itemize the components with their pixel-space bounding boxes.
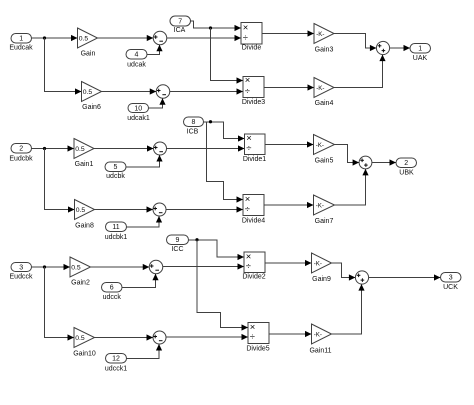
node branch C bbox=[43, 265, 46, 268]
divide Divide3 bbox=[242, 75, 265, 106]
wire Eudcbk to Gain1 bbox=[32, 145, 75, 151]
svg-text:udcbk1: udcbk1 bbox=[105, 234, 128, 241]
wire Sum6 to UCK bbox=[369, 274, 441, 280]
wire Sum3 to Divide1 bbox=[167, 145, 245, 151]
wire Divide1 to Gain5 bbox=[265, 141, 314, 147]
inport 3 Eudcck bbox=[10, 263, 33, 281]
svg-text:2: 2 bbox=[404, 160, 408, 167]
svg-text:11: 11 bbox=[112, 224, 119, 231]
wire Sum3b to Divide4 bbox=[166, 206, 243, 212]
svg-text:3: 3 bbox=[19, 264, 23, 271]
svg-text:Gain: Gain bbox=[81, 51, 96, 58]
svg-text:Eudcak: Eudcak bbox=[9, 45, 33, 52]
wire Gain10 to Sum5b bbox=[95, 334, 154, 340]
inport 4 udcak bbox=[126, 50, 147, 69]
gain Gain8 0.5 bbox=[75, 200, 95, 230]
svg-text:Gain10: Gain10 bbox=[73, 351, 96, 358]
gain Gain1 0.5 bbox=[74, 139, 94, 169]
wire Gain3 to Sum2 bbox=[334, 34, 376, 52]
svg-text:÷: ÷ bbox=[245, 204, 250, 215]
wire Divide2 to Gain9 bbox=[265, 260, 312, 266]
wire Gain8 to Sum3b bbox=[95, 206, 154, 212]
inport 2 Eudcbk bbox=[9, 144, 33, 163]
svg-text:×: × bbox=[245, 75, 251, 86]
inport 5 udcbk bbox=[105, 162, 126, 180]
svg-text:6: 6 bbox=[110, 285, 114, 292]
wire Eudcak to Gain bbox=[32, 35, 78, 41]
wire branch to Gain10 bbox=[45, 267, 75, 341]
inport 11 udcbk1 bbox=[105, 222, 128, 241]
svg-text:Divide3: Divide3 bbox=[242, 99, 265, 106]
sum Sum2 out A bbox=[376, 41, 389, 54]
wire Divide4 to Gain7 bbox=[264, 202, 314, 208]
svg-text:Divide1: Divide1 bbox=[243, 156, 266, 163]
gain Gain9 -K- bbox=[312, 253, 332, 283]
wire Gain5 to Sum4 bbox=[335, 145, 360, 166]
wire Sum4 to UBK bbox=[372, 159, 396, 165]
sum Sum1b bbox=[156, 85, 170, 99]
wire Divide3 to Gain4 bbox=[264, 84, 314, 90]
outport 3 UCK bbox=[441, 273, 462, 292]
svg-text:ICA: ICA bbox=[174, 27, 186, 34]
inport 7 ICA bbox=[170, 16, 191, 34]
svg-text:Gain7: Gain7 bbox=[315, 218, 334, 225]
inport 1 Eudcak bbox=[9, 34, 33, 52]
sum Sum5b bbox=[153, 331, 166, 344]
wire ICA to Divide bbox=[191, 21, 242, 31]
gain Gain7 -K- bbox=[314, 195, 335, 225]
svg-text:Gain5: Gain5 bbox=[315, 158, 334, 165]
wire Gain4 to Sum2 bbox=[334, 55, 386, 88]
svg-text:8: 8 bbox=[192, 119, 196, 126]
svg-text:Divide5: Divide5 bbox=[246, 346, 269, 353]
svg-text:Gain8: Gain8 bbox=[75, 223, 94, 230]
wire Divide to Gain3 bbox=[262, 30, 314, 36]
divide Divide bbox=[241, 22, 262, 51]
divide Divide1 bbox=[243, 133, 266, 163]
wire Eudcck to Gain2 bbox=[32, 264, 71, 270]
gain Gain5 -K- bbox=[314, 135, 335, 165]
svg-text:1: 1 bbox=[19, 36, 23, 43]
svg-text:12: 12 bbox=[112, 356, 120, 363]
svg-text:udcck: udcck bbox=[103, 294, 122, 301]
svg-text:Divide: Divide bbox=[242, 45, 262, 52]
wire Gain9 to Sum6 bbox=[332, 263, 356, 281]
wire udcbk to Sum3 bbox=[126, 155, 163, 167]
wire branch to Gain8 bbox=[45, 149, 75, 213]
svg-text:÷: ÷ bbox=[245, 86, 250, 97]
wire udcak to Sum1 bbox=[147, 45, 163, 55]
wire ICC branch to Divide5 bbox=[197, 240, 248, 331]
svg-text:udcak: udcak bbox=[127, 62, 146, 69]
svg-text:Divide2: Divide2 bbox=[242, 274, 265, 281]
svg-text:UCK: UCK bbox=[443, 284, 458, 291]
svg-text:÷: ÷ bbox=[250, 331, 255, 342]
svg-text:10: 10 bbox=[134, 105, 142, 112]
svg-text:÷: ÷ bbox=[243, 32, 248, 43]
svg-text:UBK: UBK bbox=[399, 170, 414, 177]
svg-text:4: 4 bbox=[135, 52, 139, 59]
svg-text:2: 2 bbox=[19, 146, 23, 153]
svg-text:0.5: 0.5 bbox=[76, 207, 86, 214]
inport 6 udcck bbox=[102, 283, 123, 302]
svg-text:÷: ÷ bbox=[246, 261, 251, 272]
sum Sum1 bbox=[153, 31, 167, 45]
wire ICA branch to Divide3 bbox=[211, 28, 244, 84]
svg-text:Gain4: Gain4 bbox=[315, 100, 334, 107]
wire ICC to Divide2 bbox=[189, 240, 245, 260]
svg-text:UAK: UAK bbox=[413, 55, 428, 62]
svg-text:0.5: 0.5 bbox=[79, 36, 89, 43]
inport 12 udcck1 bbox=[105, 354, 127, 373]
wire Gain1 to Sum3 bbox=[94, 145, 154, 151]
svg-text:-K-: -K- bbox=[316, 85, 324, 92]
gain Gain4 -K- bbox=[314, 78, 334, 108]
svg-text:÷: ÷ bbox=[246, 143, 251, 154]
wire ICB branch to Divide4 bbox=[207, 122, 244, 203]
divide Divide5 bbox=[246, 322, 269, 353]
svg-text:7: 7 bbox=[178, 18, 182, 25]
sum Sum5 bbox=[149, 260, 163, 274]
svg-text:-K-: -K- bbox=[314, 260, 322, 267]
wire ICB to Divide1 bbox=[204, 122, 245, 142]
outport 2 UBK bbox=[396, 158, 417, 177]
svg-text:ICC: ICC bbox=[171, 246, 183, 253]
svg-text:Gain2: Gain2 bbox=[71, 280, 90, 287]
node ICB branch bbox=[209, 120, 212, 123]
svg-text:-K-: -K- bbox=[314, 331, 322, 338]
sum Sum3b bbox=[153, 203, 166, 216]
wire Gain7 to Sum4 bbox=[335, 169, 369, 205]
svg-text:udcbk: udcbk bbox=[106, 173, 125, 180]
gain Gain11 -K- bbox=[309, 324, 331, 355]
gain Gain 0.5 bbox=[78, 28, 98, 58]
svg-text:Gain3: Gain3 bbox=[315, 47, 334, 54]
svg-text:0.5: 0.5 bbox=[75, 335, 85, 342]
gain Gain2 0.5 bbox=[70, 257, 91, 287]
wire Sum1 to Divide bbox=[167, 35, 241, 41]
svg-text:Eudcbk: Eudcbk bbox=[9, 156, 33, 163]
sum Sum6 out C bbox=[355, 271, 368, 284]
wire Gain6 to Sum1b bbox=[102, 88, 157, 94]
outport 1 UAK bbox=[410, 44, 431, 63]
svg-text:Gain6: Gain6 bbox=[82, 104, 101, 111]
svg-text:9: 9 bbox=[176, 237, 180, 244]
svg-text:-K-: -K- bbox=[316, 202, 324, 209]
gain Gain6 0.5 bbox=[82, 82, 102, 112]
wire Sum5b to Divide5 bbox=[166, 334, 248, 340]
node branch A bbox=[43, 36, 46, 39]
svg-text:ICB: ICB bbox=[187, 129, 199, 136]
wire Gain2 to Sum5 bbox=[91, 264, 150, 270]
node ICC branch bbox=[195, 238, 198, 241]
inport 10 udcak1 bbox=[127, 104, 150, 123]
divide Divide4 bbox=[242, 194, 265, 225]
svg-text:-K-: -K- bbox=[316, 31, 324, 38]
svg-text:Eudcck: Eudcck bbox=[10, 274, 33, 281]
wire udcak1 to Sum1b bbox=[149, 98, 166, 108]
svg-text:udcck1: udcck1 bbox=[105, 366, 127, 373]
wire Sum2 to UAK bbox=[390, 45, 410, 51]
svg-text:Divide4: Divide4 bbox=[242, 218, 265, 225]
wire Gain to Sum1 bbox=[98, 35, 154, 41]
node ICA branch bbox=[209, 26, 212, 29]
sum Sum3 bbox=[154, 142, 167, 155]
inport 9 ICC bbox=[167, 235, 189, 253]
gain Gain10 0.5 bbox=[73, 328, 96, 358]
node branch B bbox=[43, 147, 46, 150]
wire branch to Gain6 bbox=[45, 38, 82, 95]
wire udcck to Sum5 bbox=[122, 274, 159, 288]
wire Divide5 to Gain11 bbox=[269, 331, 312, 337]
svg-text:3: 3 bbox=[449, 275, 453, 282]
svg-text:Gain11: Gain11 bbox=[309, 348, 331, 355]
inport 8 ICB bbox=[184, 117, 204, 136]
svg-text:0.5: 0.5 bbox=[83, 89, 93, 96]
wire Sum1b to Divide3 bbox=[170, 88, 243, 94]
wire Gain11 to Sum6 bbox=[332, 284, 365, 334]
svg-text:Gain1: Gain1 bbox=[75, 161, 94, 168]
wire Sum5 to Divide2 bbox=[163, 263, 244, 269]
svg-text:5: 5 bbox=[114, 164, 118, 171]
gain Gain3 -K- bbox=[314, 24, 334, 54]
sum Sum4 out B bbox=[359, 156, 372, 169]
svg-text:-K-: -K- bbox=[316, 142, 324, 149]
wire udcbk1 to Sum3b bbox=[127, 216, 163, 227]
svg-text:udcak1: udcak1 bbox=[127, 115, 150, 122]
divide Divide2 bbox=[242, 251, 265, 280]
svg-text:1: 1 bbox=[418, 46, 422, 53]
svg-text:0.5: 0.5 bbox=[75, 146, 85, 153]
wire udcck1 to Sum5b bbox=[127, 344, 163, 358]
svg-text:0.5: 0.5 bbox=[71, 265, 81, 272]
svg-text:Gain9: Gain9 bbox=[312, 276, 331, 283]
